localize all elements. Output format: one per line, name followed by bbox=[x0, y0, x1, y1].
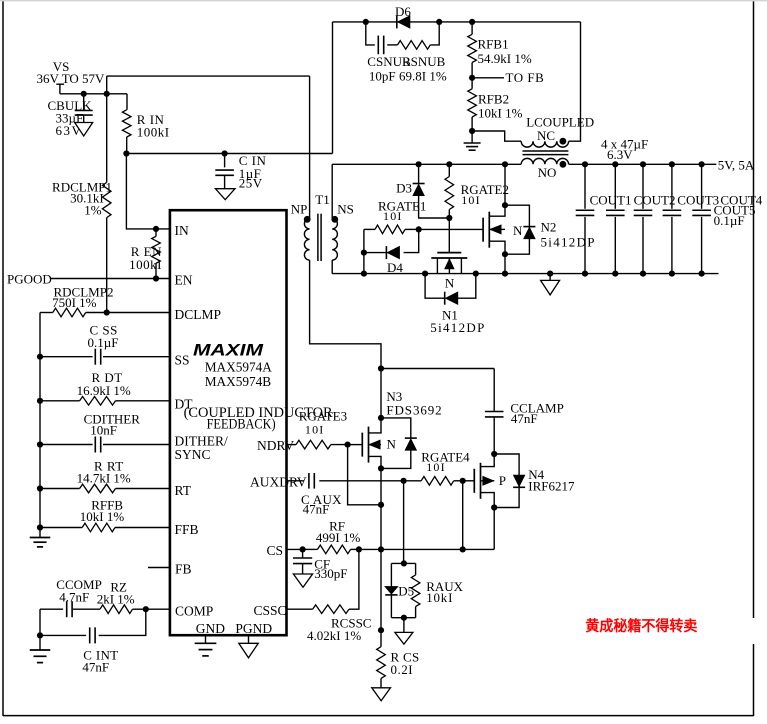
svg-text:10I: 10I bbox=[426, 460, 446, 474]
svg-text:14.7kI 1%: 14.7kI 1% bbox=[77, 470, 131, 485]
svg-text:NS: NS bbox=[337, 202, 354, 217]
junction clamp node top bbox=[378, 365, 384, 371]
svg-text:EN: EN bbox=[175, 273, 193, 288]
transistor N4 IRF6217 clamp PFET bbox=[491, 451, 497, 457]
junction bottom rail ground tap bbox=[547, 271, 553, 277]
svg-text:MAX5974A: MAX5974A bbox=[205, 360, 273, 375]
resistor REN bbox=[155, 229, 157, 236]
wire EN pin from PGOOD bbox=[51, 278, 171, 280]
resistor RSNUB bbox=[387, 44, 397, 46]
svg-text:10nF: 10nF bbox=[90, 423, 117, 438]
wire RGATE1 left leg bbox=[363, 229, 365, 273]
wire AUXDRV leg down to clamp diode bbox=[403, 481, 405, 564]
wire FB stub bbox=[148, 567, 171, 569]
ground below RCS bbox=[372, 688, 391, 701]
wire snubber top rail bbox=[333, 21, 581, 23]
capacitor CBULK bbox=[83, 94, 85, 110]
ground below RFB2 bbox=[471, 131, 473, 143]
junction RGATE2 top bbox=[446, 161, 452, 167]
resistor RDCLMP2 bbox=[40, 312, 53, 314]
op-amp U1 MAX5974 IC box bbox=[170, 210, 287, 635]
resistor RGATE4 bbox=[404, 480, 422, 482]
svg-text:0.1µF: 0.1µF bbox=[714, 213, 745, 228]
wire T1 primary bottom to clamp node bbox=[310, 260, 381, 368]
svg-text:RFB2: RFB2 bbox=[478, 91, 509, 106]
svg-text:SS: SS bbox=[175, 353, 190, 368]
resistor RFB2 bbox=[471, 78, 473, 89]
junction CINT bus bbox=[37, 632, 43, 638]
junction CS to RCS bbox=[378, 546, 384, 552]
wire T1 secondary bottom to rail bbox=[331, 260, 333, 274]
svg-text:10I: 10I bbox=[383, 209, 403, 223]
wire secondary bottom rail bbox=[332, 273, 718, 275]
wire IN pin from RIN junction bbox=[126, 154, 170, 229]
svg-text:69.8I 1%: 69.8I 1% bbox=[399, 68, 447, 83]
border frame left bbox=[2, 0, 4, 716]
junction RGATE4 right bbox=[460, 478, 466, 484]
capacitor COUT2 bbox=[614, 164, 616, 209]
transistor N3 FDS3692 main switch bbox=[369, 418, 382, 433]
transformer T1 secondary winding NS bbox=[332, 219, 337, 261]
wire NC to snubber rail bbox=[569, 22, 581, 141]
resistor RRT bbox=[40, 488, 80, 490]
resistor RDT bbox=[40, 400, 80, 402]
svg-text:NDRV: NDRV bbox=[257, 438, 294, 453]
junction D4 left bbox=[361, 250, 367, 256]
junction N3 gate node bbox=[345, 442, 351, 448]
wire CS pin bbox=[287, 548, 303, 550]
junction REN top bbox=[153, 226, 159, 232]
svg-text:5i412DP: 5i412DP bbox=[430, 320, 485, 335]
svg-text:N2: N2 bbox=[541, 219, 557, 234]
capacitor CSNUB bbox=[366, 22, 375, 45]
svg-text:750I 1%: 750I 1% bbox=[52, 295, 97, 310]
svg-text:0.1µF: 0.1µF bbox=[88, 335, 119, 350]
node TO FB bbox=[472, 77, 504, 79]
svg-text:IN: IN bbox=[175, 223, 189, 238]
junction rail below RGATE1 bbox=[361, 271, 367, 277]
junction snubber right bbox=[436, 19, 442, 25]
svg-text:2kI 1%: 2kI 1% bbox=[97, 592, 135, 607]
junction CBULK tap bbox=[81, 91, 87, 97]
resistor RAUX bbox=[415, 563, 417, 575]
wire COMP pin bbox=[146, 608, 170, 610]
ground PGND under IC (triangle) bbox=[248, 635, 250, 643]
capacitor COUT4 bbox=[671, 164, 673, 209]
transformer T1 secondary lead NS bbox=[331, 164, 333, 218]
resistor RCS bbox=[380, 549, 382, 646]
inductor LCOUPLED core bbox=[523, 150, 569, 152]
junction RFB2 bottom bbox=[469, 128, 475, 134]
wire RFB2 to NC winding bbox=[472, 131, 521, 141]
svg-text:FEEDBACK): FEEDBACK) bbox=[207, 417, 276, 433]
svg-text:AUXDRV: AUXDRV bbox=[250, 475, 307, 490]
svg-text:黄成秘籍不得转卖: 黄成秘籍不得转卖 bbox=[585, 617, 697, 635]
svg-text:CSSC: CSSC bbox=[253, 603, 286, 618]
svg-text:FDS3692: FDS3692 bbox=[386, 402, 442, 417]
svg-text:MAX5974B: MAX5974B bbox=[205, 374, 272, 389]
capacitor CIN bbox=[224, 154, 226, 168]
svg-text:4.7nF: 4.7nF bbox=[59, 589, 89, 604]
resistor RGATE2 bbox=[448, 164, 450, 176]
resistor RDCLMP1 bbox=[106, 94, 108, 183]
capacitor CCLAMP bbox=[493, 369, 495, 412]
svg-text:NP: NP bbox=[291, 202, 308, 217]
svg-text:DT: DT bbox=[175, 397, 194, 412]
svg-text:5i412DP: 5i412DP bbox=[541, 234, 596, 249]
transformer T1 primary lead from VS rail bbox=[309, 76, 311, 218]
capacitor CF bbox=[302, 549, 304, 558]
resistor RFB1 bbox=[471, 22, 473, 34]
junction VS riser bbox=[104, 91, 110, 97]
transistor N1 body diode loop bbox=[422, 271, 428, 277]
resistor RFFB bbox=[40, 527, 82, 529]
wire VS riser to top rail bbox=[106, 76, 108, 94]
junction N3 source bbox=[378, 465, 384, 471]
transformer T1 phase dot NS bbox=[331, 216, 338, 223]
diode D5 with resistor RAUX parallel bbox=[391, 562, 415, 564]
junction RGATE1/D4/N2 gate bbox=[416, 226, 422, 232]
svg-text:25V: 25V bbox=[239, 175, 263, 190]
wire snubber box left edge bbox=[332, 22, 334, 154]
diode D3 bbox=[418, 164, 420, 183]
wire CS node bbox=[359, 548, 494, 550]
svg-text:10kI: 10kI bbox=[426, 590, 453, 605]
junction D5/RAUX bottom bbox=[391, 617, 415, 619]
svg-text:DCLMP: DCLMP bbox=[175, 307, 222, 322]
junction REN bottom bbox=[153, 275, 159, 281]
ground below CBULK bbox=[75, 123, 93, 137]
capacitor CDITHER bbox=[40, 444, 170, 446]
svg-text:5V, 5A: 5V, 5A bbox=[718, 157, 755, 172]
resistor RGATE1 bbox=[364, 228, 375, 230]
svg-text:SYNC: SYNC bbox=[175, 447, 211, 462]
wire left bias bus bbox=[39, 313, 41, 538]
svg-text:N: N bbox=[387, 437, 397, 452]
svg-text:10kI 1%: 10kI 1% bbox=[478, 105, 523, 120]
svg-text:FB: FB bbox=[175, 562, 192, 577]
svg-text:P: P bbox=[499, 473, 506, 488]
capacitor CAUX on AUXDRV bbox=[287, 480, 304, 482]
svg-text:N: N bbox=[513, 223, 523, 238]
svg-text:N: N bbox=[445, 276, 455, 291]
inductor LCOUPLED NC winding bbox=[521, 141, 568, 147]
ground below CCOMP bus bbox=[30, 649, 51, 651]
wire clamp rail to CCLAMP bbox=[381, 368, 494, 370]
diode D4 bbox=[404, 229, 419, 252]
border frame bottom bbox=[3, 715, 754, 717]
wire secondary rail NS to output bbox=[332, 163, 521, 165]
wire RGATE4 right leg to CS wire bbox=[462, 481, 464, 550]
wire VS top rail to transformer NP bbox=[107, 75, 310, 77]
svg-text:NC: NC bbox=[537, 128, 555, 143]
svg-text:0.2I: 0.2I bbox=[391, 662, 414, 677]
transistor N4 body diode bbox=[494, 454, 519, 508]
svg-text:IRF6217: IRF6217 bbox=[528, 478, 575, 493]
resistor RF bbox=[303, 548, 318, 550]
junction RFB1 top bbox=[469, 19, 475, 25]
svg-text:COUT1: COUT1 bbox=[590, 193, 632, 208]
junction RF right bbox=[356, 546, 362, 552]
phase dot NC bbox=[560, 138, 567, 145]
junction CS to N4 gate leg bbox=[460, 546, 466, 552]
svg-text:COMP: COMP bbox=[175, 603, 213, 618]
junction N4 drain bbox=[491, 504, 497, 510]
junction TO FB tap bbox=[469, 75, 475, 81]
svg-text:100kI: 100kI bbox=[137, 125, 170, 140]
junction D5/RAUX top bbox=[401, 560, 407, 566]
capacitor CSS bbox=[40, 356, 170, 358]
wire N3 source down to CS node bbox=[380, 468, 382, 549]
transformer T1 phase dot NP bbox=[304, 216, 311, 223]
svg-text:FFB: FFB bbox=[175, 522, 199, 537]
svg-text:COUT2: COUT2 bbox=[634, 193, 676, 208]
ground below CIN bbox=[215, 189, 235, 200]
svg-text:47nF: 47nF bbox=[303, 501, 330, 516]
svg-text:499I 1%: 499I 1% bbox=[316, 530, 361, 545]
capacitor CINT bbox=[40, 634, 86, 636]
junction N2 source on rail bbox=[502, 271, 508, 277]
svg-text:D3: D3 bbox=[396, 181, 412, 196]
junction snubber left bbox=[363, 19, 369, 25]
wire CIN rail bbox=[126, 153, 332, 155]
wire N4 gate bbox=[463, 480, 475, 482]
svg-text:36V TO 57V: 36V TO 57V bbox=[37, 71, 106, 86]
svg-text:47nF: 47nF bbox=[82, 659, 109, 674]
junction CIN tap bbox=[222, 150, 228, 156]
svg-text:CS: CS bbox=[266, 543, 283, 558]
junction RDCLMP1 bottom on DCLMP wire bbox=[104, 309, 110, 315]
svg-text:MAXIM: MAXIM bbox=[193, 342, 265, 360]
wire N4 drain to CS wire bbox=[493, 508, 495, 550]
transformer T1 core bbox=[317, 214, 319, 261]
svg-text:NO: NO bbox=[538, 165, 557, 180]
wire VS terminal tick bbox=[56, 83, 64, 85]
capacitor COUT1 bbox=[584, 164, 586, 209]
svg-text:TO FB: TO FB bbox=[506, 70, 545, 85]
svg-text:D6: D6 bbox=[395, 4, 411, 19]
svg-text:4.02kI 1%: 4.02kI 1% bbox=[307, 628, 361, 643]
wire N2 gate bbox=[419, 228, 483, 230]
inductor LCOUPLED NO winding bbox=[521, 158, 568, 164]
junction COMP node bbox=[143, 606, 149, 612]
svg-text:RT: RT bbox=[175, 483, 192, 498]
svg-text:RSNUB: RSNUB bbox=[402, 54, 446, 69]
svg-text:10I: 10I bbox=[305, 422, 325, 436]
resistor RGATE3 on NDRV bbox=[287, 444, 297, 446]
transistor N3 body diode bbox=[381, 418, 411, 438]
junction RGATE4 left bbox=[401, 478, 407, 484]
border frame right (gap at watermark row) bbox=[753, 0, 755, 618]
junction D3 top bbox=[416, 161, 422, 167]
svg-text:D5: D5 bbox=[398, 583, 414, 598]
svg-text:PGND: PGND bbox=[235, 621, 272, 636]
svg-text:RFB1: RFB1 bbox=[478, 37, 509, 52]
capacitor CCOMP bbox=[40, 608, 63, 610]
svg-text:1%: 1% bbox=[84, 203, 102, 218]
ground at bias bus bottom bbox=[30, 537, 51, 539]
transistor N2 body diode bbox=[505, 205, 529, 254]
junction N1 gate node bbox=[446, 215, 452, 221]
svg-text:10kI 1%: 10kI 1% bbox=[80, 509, 125, 524]
wire VS stub down bbox=[59, 84, 61, 94]
transistor N1 Si4412DP sync FET bbox=[437, 252, 461, 254]
resistor RCSSC on CSSC bbox=[287, 608, 313, 610]
svg-text:6.3V: 6.3V bbox=[607, 147, 633, 162]
transformer T1 primary winding NP bbox=[304, 219, 309, 261]
junction N3 drain bbox=[378, 415, 384, 421]
svg-text:16.9kI 1%: 16.9kI 1% bbox=[77, 383, 131, 398]
wire to N1 gate bbox=[448, 218, 450, 253]
svg-text:10I: 10I bbox=[461, 193, 481, 207]
wire VS horizontal to RIN bbox=[60, 93, 127, 95]
svg-text:330pF: 330pF bbox=[314, 566, 347, 581]
svg-text:47nF: 47nF bbox=[511, 411, 538, 426]
svg-text:PGOOD: PGOOD bbox=[7, 271, 52, 286]
capacitor COUT3 bbox=[642, 164, 644, 209]
junction CF tap bbox=[300, 546, 306, 552]
ground below RAUX bbox=[403, 618, 405, 633]
junction gate loop to source line bbox=[378, 502, 384, 508]
ground secondary bbox=[549, 274, 551, 281]
capacitor COUT5 bbox=[701, 164, 703, 209]
phase dot NO bbox=[560, 161, 567, 168]
svg-text:10pF: 10pF bbox=[369, 68, 396, 83]
resistor RIN bbox=[126, 94, 128, 110]
wire N3 drain bbox=[380, 369, 382, 418]
svg-text:D4: D4 bbox=[387, 260, 403, 275]
resistor RZ bbox=[73, 608, 100, 610]
svg-text:54.9kI 1%: 54.9kI 1% bbox=[478, 51, 532, 66]
junction RIN bottom / CIN rail bbox=[123, 150, 129, 156]
svg-text:100kI: 100kI bbox=[129, 257, 162, 272]
transistor N2 Si4412DP sync FET bbox=[502, 161, 508, 167]
svg-text:T1: T1 bbox=[315, 192, 329, 207]
wire N3 gate bbox=[348, 444, 363, 446]
svg-text:GND: GND bbox=[196, 621, 225, 636]
diode D6 bbox=[398, 16, 410, 28]
wire COMP ground bus bbox=[39, 609, 41, 650]
ground GND under IC bbox=[205, 635, 207, 643]
wire gate pulldown loop bbox=[348, 445, 381, 505]
